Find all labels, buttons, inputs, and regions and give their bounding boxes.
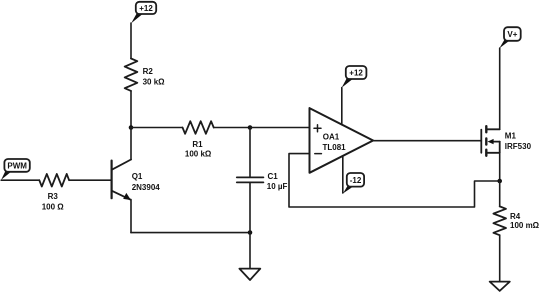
wire node to op-amp non-inverting input [250, 127, 310, 129]
wire collector node to Q1 collector [130, 128, 132, 160]
wire Q1 emitter down [130, 200, 132, 233]
label R2 value [143, 67, 166, 86]
node R1 / C1 / op-amp input [248, 125, 253, 130]
label OA1 value [323, 133, 347, 152]
svg-text:100 kΩ: 100 kΩ [185, 149, 212, 158]
label C1 value [267, 172, 288, 191]
resistor R3 [39, 174, 69, 187]
wire R4 to ground [499, 235, 501, 281]
svg-text:10 µF: 10 µF [267, 182, 288, 191]
wire +12 flag to op-amp V+ pin [341, 88, 343, 125]
wire R2 to collector node [130, 91, 132, 128]
svg-text:R1: R1 [192, 140, 203, 149]
node collector junction [129, 125, 134, 130]
svg-text:+12: +12 [349, 69, 363, 78]
svg-text:+12: +12 [139, 4, 153, 13]
resistor R4 [493, 206, 506, 235]
resistor R2 [125, 59, 138, 91]
op-amp U1 OA1 (TL081) [310, 108, 374, 173]
transistor Q1 (NPN 2N3904) [112, 160, 131, 201]
svg-text:TL081: TL081 [323, 143, 347, 152]
label Q1 value [132, 172, 161, 192]
svg-text:R3: R3 [48, 192, 59, 201]
svg-text:PWM: PWM [7, 161, 27, 170]
wire emitter to ground node [131, 232, 250, 234]
mosfet M1 (IRF530 NMOS) [481, 126, 499, 156]
svg-text:Q1: Q1 [132, 172, 143, 181]
wire C1 to ground node [249, 182, 251, 232]
wire input node down to C1 [249, 128, 251, 178]
label R3 value [42, 192, 65, 212]
flag -12 (op-amp negative supply) [343, 173, 364, 193]
wire V+ flag to M1 drain [499, 48, 501, 129]
svg-text:OA1: OA1 [323, 133, 340, 142]
wire PWM to R3 [1, 179, 39, 181]
ground (C1 / Q1 emitter) [239, 269, 260, 280]
wire op-amp V- pin to -12 flag [342, 156, 344, 193]
svg-text:100 Ω: 100 Ω [42, 203, 65, 212]
wire feedback: M1 source node to op-amp inverting input [289, 154, 500, 207]
ground (R4) [490, 282, 510, 291]
label R1 value [185, 140, 212, 158]
wire node to ground symbol [249, 233, 251, 269]
svg-text:2N3904: 2N3904 [132, 183, 161, 192]
svg-text:V+: V+ [507, 30, 517, 39]
svg-text:R2: R2 [143, 67, 154, 76]
svg-text:IRF530: IRF530 [505, 142, 532, 151]
label M1 value [505, 131, 532, 151]
label R4 value [510, 212, 540, 230]
resistor R1 [183, 121, 214, 134]
node emitter / C1 / ground [248, 230, 253, 235]
wire R1 to input node [214, 127, 250, 129]
flag V+ (drain supply) [499, 27, 520, 48]
svg-text:R4: R4 [510, 212, 521, 221]
svg-text:C1: C1 [268, 172, 279, 181]
wire R3 to Q1 base [69, 179, 112, 181]
flag PWM input [1, 159, 30, 180]
svg-text:100 mΩ: 100 mΩ [510, 221, 540, 230]
node M1 source / R4 / feedback [497, 179, 502, 184]
flag +12 (op-amp positive supply) [342, 66, 367, 88]
svg-text:-12: -12 [350, 176, 362, 185]
svg-text:30 kΩ: 30 kΩ [143, 77, 166, 86]
wire collector node to R1 [131, 127, 183, 129]
wire M1 source down to node [499, 153, 501, 181]
wire op-amp output to M1 gate [373, 140, 481, 142]
flag +12 supply (top left) [131, 2, 156, 23]
capacitor C1 [237, 177, 264, 182]
wire node to R4 [499, 181, 501, 206]
svg-text:M1: M1 [505, 131, 517, 140]
wire +12 flag to R2 [130, 23, 132, 59]
